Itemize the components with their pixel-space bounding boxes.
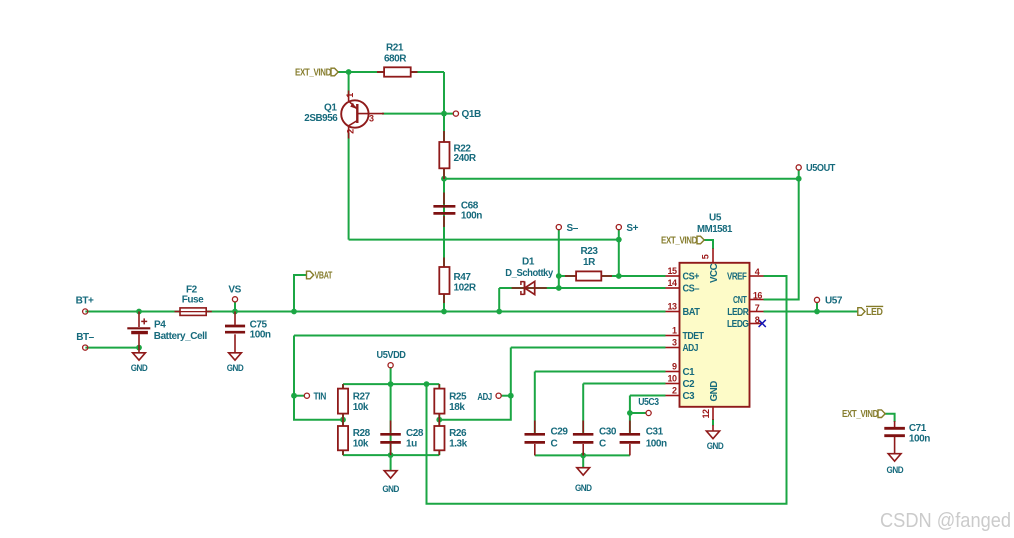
wire C2 line — [583, 383, 665, 385]
wire ADJ stub — [501, 395, 511, 397]
node Q1B open end — [453, 111, 458, 116]
wire TIN stub — [294, 395, 304, 397]
node ADJ junction — [508, 393, 514, 399]
wire S+ stub — [618, 230, 620, 276]
wire C1 line — [535, 371, 666, 373]
svg-text:14: 14 — [667, 278, 677, 288]
wire CS+ line — [559, 275, 666, 277]
pin 3 ADJ — [666, 347, 680, 349]
svg-text:CS–: CS– — [683, 284, 700, 295]
svg-text:Battery_Cell: Battery_Cell — [154, 331, 208, 342]
wire S+ rail horizontal — [349, 239, 619, 241]
svg-text:GND: GND — [709, 381, 720, 402]
wire LEDR to LED — [764, 311, 858, 313]
wire diode corner to BAT rail — [498, 288, 500, 312]
svg-text:D1: D1 — [522, 257, 535, 268]
wire U5 gnd gap — [712, 419, 714, 426]
pin 10 C2 — [666, 383, 680, 385]
node U5OUT open end — [796, 165, 801, 170]
svg-text:BT+: BT+ — [76, 295, 94, 306]
node U57 junction — [814, 309, 820, 315]
svg-text:Fuse: Fuse — [182, 294, 204, 305]
svg-text:U5: U5 — [709, 213, 722, 224]
resistor R47 — [439, 258, 449, 304]
svg-text:R23: R23 — [581, 246, 599, 257]
svg-text:13: 13 — [667, 302, 677, 312]
pin 14 CS- — [666, 287, 680, 289]
transistor Q1 — [341, 91, 384, 139]
svg-text:2SB956: 2SB956 — [304, 113, 338, 124]
svg-text:GND: GND — [707, 441, 724, 452]
svg-text:100n: 100n — [250, 329, 271, 340]
pin 9 C1 — [666, 371, 680, 373]
svg-text:680R: 680R — [384, 53, 407, 64]
svg-text:TDET: TDET — [683, 331, 704, 342]
svg-text:GND: GND — [382, 484, 399, 495]
node LED overline — [866, 305, 883, 307]
node U5OUT left junction — [441, 176, 447, 182]
node EXT_VIND flag top left — [331, 68, 338, 76]
resistor R25 — [434, 384, 444, 420]
pin 15 CS+ — [666, 275, 680, 277]
pin 12 GND — [712, 407, 714, 420]
svg-text:C1: C1 — [683, 367, 696, 378]
wire C28 gnd stub — [390, 455, 392, 470]
svg-text:7: 7 — [755, 303, 760, 313]
svg-text:Q1B: Q1B — [462, 109, 481, 120]
node U5VDD open end — [388, 363, 393, 368]
wire EXT_VIND to C71 — [884, 414, 895, 422]
svg-text:9: 9 — [672, 362, 677, 372]
svg-text:1.3k: 1.3k — [449, 438, 468, 449]
svg-text:100n: 100n — [646, 438, 667, 449]
node BT+ open end — [83, 309, 88, 314]
capacitor C29 — [525, 421, 546, 456]
node S+ rail junction — [616, 237, 622, 243]
node U5C3 open end — [646, 410, 651, 415]
svg-text:10k: 10k — [353, 438, 369, 449]
svg-text:D_Schottky: D_Schottky — [505, 268, 553, 279]
diode D1 — [512, 281, 547, 294]
svg-text:3: 3 — [369, 114, 374, 124]
pin 1 TDET — [666, 335, 680, 337]
wire R21 right down to R22 — [443, 72, 445, 142]
node VS open end — [232, 297, 237, 302]
capacitor C28 — [380, 421, 401, 456]
svg-text:1u: 1u — [406, 438, 417, 449]
svg-text:R47: R47 — [454, 272, 472, 283]
capacitor C30 — [573, 421, 594, 456]
pin 13 BAT — [666, 311, 680, 313]
ground U5 — [706, 425, 719, 439]
svg-text:C71: C71 — [909, 423, 927, 434]
svg-text:TIN: TIN — [314, 391, 327, 402]
wire U5VDD rail — [343, 383, 439, 385]
svg-text:R21: R21 — [386, 42, 404, 53]
battery P4 — [127, 312, 150, 348]
svg-text:15: 15 — [667, 266, 677, 276]
svg-text:240R: 240R — [454, 153, 477, 164]
capacitor C68 — [433, 193, 455, 228]
svg-text:16: 16 — [753, 291, 763, 301]
resistor R28 — [338, 420, 348, 455]
pin 2 C3 — [666, 395, 680, 397]
svg-text:18k: 18k — [449, 402, 465, 413]
svg-text:EXT_VIND: EXT_VIND — [842, 409, 878, 420]
node Q1B junction — [441, 111, 447, 117]
resistor R22 — [439, 131, 449, 179]
svg-text:GND: GND — [227, 363, 244, 374]
pin 4 VREF — [750, 275, 764, 277]
svg-text:VS: VS — [228, 284, 241, 295]
pin 8 LEDG — [750, 323, 762, 325]
wire R25 chain — [438, 384, 440, 455]
svg-text:5: 5 — [701, 254, 711, 259]
svg-text:MM1581: MM1581 — [697, 224, 733, 235]
svg-text:U5OUT: U5OUT — [806, 163, 835, 174]
svg-text:U5VDD: U5VDD — [377, 350, 406, 361]
node VBAT flag — [307, 271, 314, 279]
node TIN junction — [291, 393, 297, 399]
svg-text:1: 1 — [345, 93, 355, 98]
ground C28 — [384, 471, 397, 478]
svg-text:Q1: Q1 — [324, 102, 337, 113]
svg-text:S–: S– — [567, 223, 579, 234]
node EXT_VIND flag at U5 — [697, 236, 704, 244]
svg-text:U5C3: U5C3 — [638, 397, 659, 408]
ground C75 — [229, 353, 242, 360]
node VS junction — [232, 309, 238, 315]
wire bottom rail left — [343, 454, 439, 456]
svg-text:2: 2 — [346, 129, 356, 134]
node CS- junction — [556, 285, 562, 291]
svg-text:1: 1 — [672, 326, 677, 336]
svg-text:10: 10 — [667, 374, 677, 384]
wire battery BAT rail — [85, 311, 665, 313]
node C30 bottom junction — [580, 453, 586, 459]
node EXT_VIND junction — [346, 69, 352, 75]
wire U5OUT down to CNT — [764, 179, 799, 300]
wire Q1 base to Q1B node — [382, 113, 453, 115]
node feedback junction — [424, 381, 430, 387]
node S- open end — [556, 225, 561, 230]
wire long feedback bottom — [427, 276, 787, 504]
svg-text:LEDR: LEDR — [727, 307, 748, 318]
svg-text:VBAT: VBAT — [315, 271, 333, 282]
no-connect X on LEDG — [759, 320, 766, 327]
svg-text:12: 12 — [701, 409, 711, 419]
svg-text:10k: 10k — [353, 402, 369, 413]
node EXT_VIND flag bottom right — [878, 410, 885, 418]
svg-text:LEDG: LEDG — [727, 319, 749, 330]
op-amp U1 IC U5 MM1581 body — [680, 263, 750, 407]
wire U5VDD stub — [390, 367, 392, 384]
node battery top junction — [136, 309, 142, 315]
svg-text:U57: U57 — [825, 296, 843, 307]
ground battery — [133, 348, 146, 361]
wire U5OUT stub — [798, 170, 800, 179]
svg-text:EXT_VIND: EXT_VIND — [661, 236, 697, 247]
svg-text:4: 4 — [755, 267, 760, 277]
node diode corner junction — [496, 309, 502, 315]
wire TDET line — [294, 335, 666, 337]
svg-text:C30: C30 — [599, 426, 617, 437]
svg-text:8: 8 — [755, 315, 760, 325]
node U5C3 junction — [627, 410, 633, 416]
resistor R26 — [434, 420, 444, 455]
wire C28 chain — [390, 384, 392, 455]
resistor R21 — [377, 67, 418, 76]
capacitor C31 — [620, 421, 641, 456]
wire BT- to battery — [85, 347, 139, 349]
wire C2 down to C30 — [582, 384, 584, 434]
svg-text:GND: GND — [575, 483, 592, 494]
wire TDET down to TIN — [294, 336, 343, 420]
svg-text:C29: C29 — [551, 426, 569, 437]
svg-text:VREF: VREF — [727, 272, 747, 283]
wire C3 down to C31 — [629, 396, 631, 434]
svg-text:BAT: BAT — [683, 307, 700, 318]
node VBAT junction — [291, 309, 297, 315]
svg-text:VCC: VCC — [709, 263, 720, 283]
wire U5C3 stub — [630, 412, 646, 414]
node U5OUT junction — [796, 176, 802, 182]
wire R27 chain — [342, 384, 344, 455]
svg-text:ADJ: ADJ — [683, 343, 699, 354]
node U57 open end — [814, 297, 819, 302]
svg-text:100n: 100n — [909, 434, 930, 445]
node CS+ left junction — [556, 273, 562, 279]
capacitor C71 — [884, 421, 905, 454]
svg-text:C: C — [599, 438, 606, 449]
wire CS- line — [499, 287, 665, 289]
wire Q1 collector down — [348, 133, 350, 240]
svg-text:CS+: CS+ — [683, 272, 700, 283]
svg-text:CSDN @fanged: CSDN @fanged — [880, 510, 1011, 532]
pin 5 VCC — [712, 249, 714, 263]
svg-text:C2: C2 — [683, 379, 696, 390]
capacitor C75 — [225, 312, 245, 353]
svg-text:BT–: BT– — [76, 332, 94, 343]
resistor R27 — [338, 384, 348, 420]
svg-text:EXT_VIND: EXT_VIND — [295, 68, 331, 79]
node TIN open end — [304, 393, 309, 398]
wire ADJ pin line — [511, 347, 666, 349]
svg-text:C3: C3 — [683, 391, 696, 402]
svg-text:C: C — [551, 438, 558, 449]
node R27 R28 junction — [340, 417, 346, 423]
node S+ open end — [616, 225, 621, 230]
wire U5OUT horizontal — [444, 178, 799, 180]
svg-text:GND: GND — [131, 363, 148, 374]
wire bottom rail right — [535, 454, 630, 456]
pin 16 CNT — [750, 299, 764, 301]
svg-text:P4: P4 — [154, 320, 166, 331]
ground C30 — [577, 468, 590, 475]
node BT- open end — [83, 345, 88, 350]
wire C30 gnd stub — [582, 455, 584, 467]
svg-text:3: 3 — [672, 338, 677, 348]
wire R22 to C68 R47 chain — [443, 168, 445, 267]
fuse F2 — [175, 308, 212, 316]
wire C3 line — [630, 395, 666, 397]
wire VS stub — [234, 302, 236, 312]
wire Q1 emitter — [348, 72, 350, 95]
svg-text:102R: 102R — [454, 282, 477, 293]
node R47 bottom junction — [441, 309, 447, 315]
svg-text:LED: LED — [866, 307, 883, 318]
node ADJ open end — [496, 393, 501, 398]
svg-text:1R: 1R — [583, 257, 596, 268]
wire VCC from EXT_VIND — [704, 240, 714, 249]
svg-text:S+: S+ — [626, 223, 638, 234]
wire VBAT riser — [294, 275, 307, 312]
pin 7 LEDR — [750, 311, 764, 313]
wire EXT_VIND to R21 — [338, 71, 445, 73]
svg-text:C31: C31 — [646, 426, 664, 437]
node C28 bottom junction — [388, 452, 394, 458]
node R25 R26 junction — [436, 417, 442, 423]
svg-text:GND: GND — [887, 465, 904, 476]
svg-text:ADJ: ADJ — [477, 392, 492, 403]
wire S- stub — [558, 230, 560, 288]
svg-text:2: 2 — [672, 386, 677, 396]
node battery bottom junction — [136, 345, 142, 351]
ground C71 — [888, 454, 901, 461]
wire U57 stub — [816, 303, 818, 312]
svg-text:CNT: CNT — [733, 295, 747, 306]
node U5VDD junction — [388, 381, 394, 387]
wire R47 to BAT rail — [443, 294, 445, 312]
node CS+ right junction — [616, 273, 622, 279]
wire C1 down to C29 — [534, 372, 536, 434]
wire ADJ riser — [439, 348, 511, 420]
resistor R23 — [565, 271, 612, 280]
node LED flag — [858, 308, 865, 316]
svg-text:100n: 100n — [461, 210, 482, 221]
